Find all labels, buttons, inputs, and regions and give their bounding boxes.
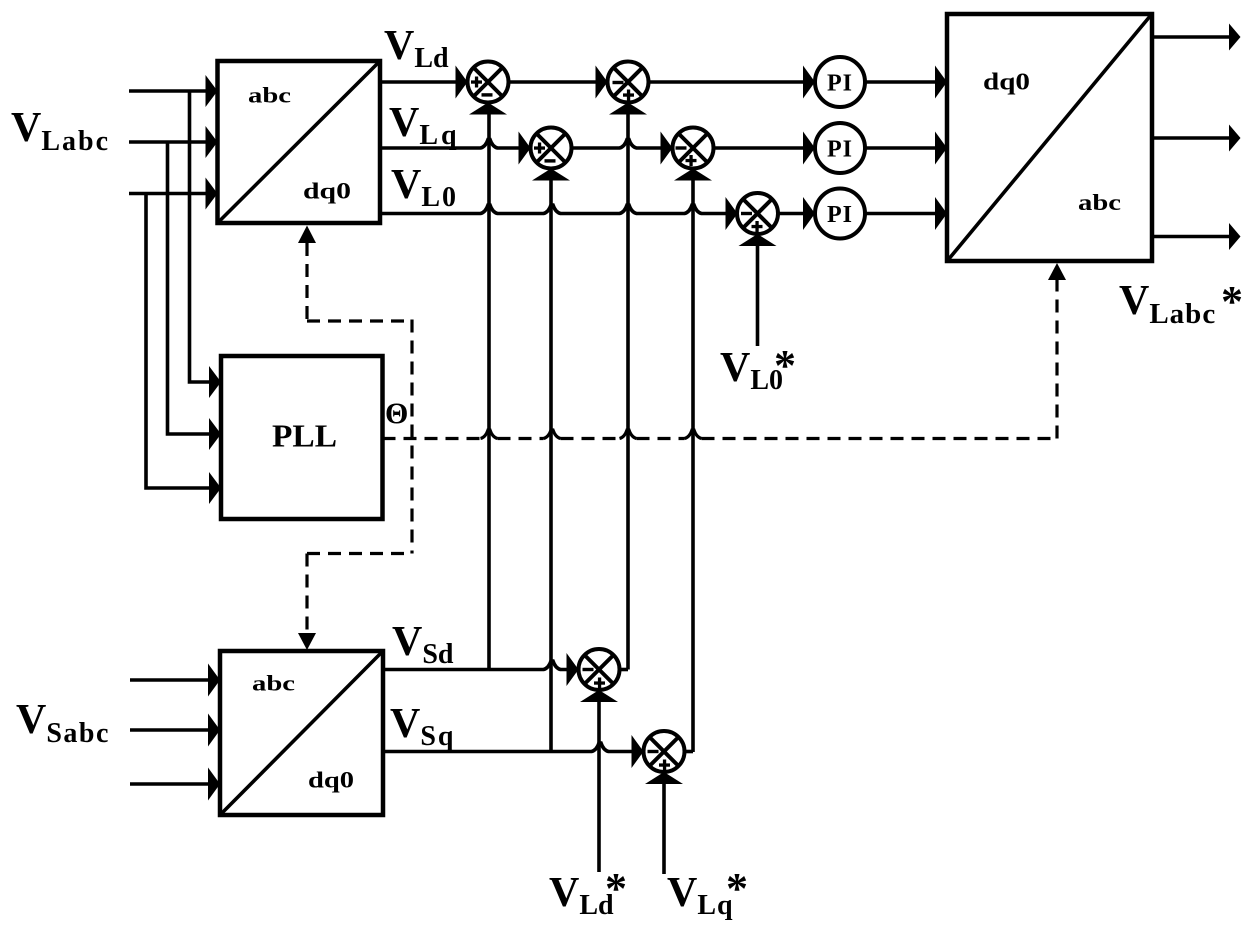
- dashed wire vertical x412: [410, 320, 413, 554]
- wire row3 B1 to sum C1 with hops: [380, 205, 727, 214]
- summing junction B1c: [531, 128, 572, 169]
- wire vertical v4 from D2 output up to B2c: [691, 174, 695, 752]
- arrowhead into sum C1: [726, 197, 738, 230]
- hop on dashed theta line over v1: [481, 430, 498, 439]
- label VL0: [391, 162, 458, 213]
- PI controller PI2: [815, 123, 865, 173]
- arrowhead B2 input b: [208, 714, 220, 747]
- arrowhead into PI3: [803, 197, 815, 230]
- arrowhead PLL input 2: [209, 418, 221, 450]
- svg-text:Θ: Θ: [385, 397, 408, 430]
- wire VLq* vertical v6: [662, 778, 666, 874]
- minus sign A1 bottom: [482, 93, 493, 96]
- wire B3 output b: [1152, 136, 1230, 140]
- label VLd*: [549, 864, 627, 921]
- label VLabc*: [1119, 277, 1243, 330]
- svg-text:dq0: dq0: [308, 768, 354, 793]
- wire feedback vertical v1 VSd up to A1: [487, 108, 491, 670]
- arrowhead input a B1: [206, 75, 218, 107]
- svg-text:*: *: [605, 864, 627, 913]
- hop on dashed theta line over v4: [685, 430, 702, 439]
- dashed wires group: [307, 243, 1057, 634]
- svg-text:PI: PI: [827, 202, 853, 228]
- block B2 diagonal: [221, 652, 382, 814]
- wire VLabc input b: [129, 140, 206, 144]
- block B3 diagonal: [948, 15, 1151, 260]
- wire B3 output c: [1152, 235, 1230, 239]
- wire row3 PI3 to B3: [865, 212, 936, 216]
- wire feedback vertical v2 VSq up to B1c: [549, 174, 553, 752]
- plus sign D1 bottom: [594, 678, 605, 689]
- summing junction D1: [579, 649, 620, 690]
- wide arrowhead up into C1 bottom: [739, 234, 777, 246]
- summing junction C1: [737, 193, 778, 234]
- wire row1 B1 to sum A1: [380, 80, 457, 84]
- arrowhead PLL input 1: [209, 366, 221, 398]
- summing junction B2c: [673, 128, 714, 169]
- wire row2 B2c to PI2: [714, 146, 805, 150]
- wide arrowhead up into B1c bottom: [532, 169, 570, 181]
- label VLabc: [11, 105, 110, 157]
- arrowhead into sum A2: [596, 66, 608, 99]
- wire VSabc input a: [130, 678, 209, 682]
- label VLq*: [667, 864, 748, 921]
- label VSabc: [16, 697, 110, 749]
- svg-text:dq0: dq0: [983, 70, 1030, 96]
- block B1 diagonal: [219, 62, 380, 222]
- dashed wire vertical x307 down to B2: [305, 554, 308, 635]
- arrowhead input c B1: [206, 178, 218, 210]
- plus sign D2 bottom: [659, 760, 670, 771]
- wire D2 output to v4: [685, 750, 694, 754]
- arrowhead input b B1: [206, 126, 218, 158]
- label VSq: [390, 701, 456, 752]
- dashed arrowhead up into B3 bottom: [1048, 263, 1066, 280]
- block B2 abc-dq0 bottom: [220, 651, 383, 815]
- wire branch a down to PLL: [190, 91, 210, 382]
- svg-text:*: *: [1221, 277, 1243, 326]
- summing junction D2: [644, 731, 685, 772]
- wide arrowhead up into D2 bottom: [645, 772, 683, 784]
- plus sign B1c left: [534, 143, 545, 154]
- hop on dashed theta line over v3: [620, 430, 637, 439]
- dashed wire PLL up segment: [305, 243, 308, 321]
- arrowhead into PI2: [803, 132, 815, 165]
- arrowhead into B3 row2: [935, 132, 947, 165]
- arrowhead into sum B2c: [661, 132, 673, 165]
- PI controller PI1: [815, 57, 865, 107]
- wire vertical v7 VL0* up to C1: [756, 240, 760, 346]
- label VL0*: [720, 341, 796, 396]
- block PLL: [221, 356, 383, 519]
- wire D1 output to v3: [620, 668, 629, 672]
- wire row3 C1 to PI3: [778, 212, 804, 216]
- wire row1 A2 to PI1: [649, 80, 805, 84]
- arrowhead into PI1: [803, 66, 815, 99]
- arrowhead into sum B1c: [519, 132, 531, 165]
- svg-text:abc: abc: [248, 83, 291, 108]
- wire branch b down to PLL: [168, 142, 210, 434]
- dashed arrowhead up into B1 bottom: [298, 226, 316, 244]
- svg-text:PI: PI: [827, 137, 853, 163]
- hop on dashed theta line over v2: [544, 430, 561, 439]
- wire branch c down to PLL: [146, 194, 210, 489]
- wide arrowhead up into D1 bottom: [580, 690, 618, 702]
- block B1 abc-dq0 top-left: [218, 61, 381, 223]
- minus sign D1 left: [583, 668, 594, 671]
- dashed arrowhead down into B2 top: [298, 633, 316, 650]
- wide arrowhead up into B2c bottom: [674, 169, 712, 181]
- wire row2 B1 to sum B1c with hop: [380, 140, 520, 149]
- svg-text:PI: PI: [827, 71, 853, 97]
- wire row1 PI1 to B3: [865, 80, 936, 84]
- wire VLabc input a: [129, 89, 206, 93]
- wire VLd* vertical v5: [597, 696, 601, 872]
- minus sign A2 left: [613, 81, 624, 84]
- label VLq: [389, 100, 460, 151]
- arrowhead output a: [1229, 24, 1241, 51]
- plus sign A2 bottom: [623, 90, 634, 101]
- wide arrowhead up into A1 bottom: [469, 103, 507, 115]
- svg-text:abc: abc: [252, 671, 295, 696]
- arrowhead into sum D2: [632, 735, 644, 768]
- plus sign A1 left: [471, 77, 482, 88]
- wire vertical v3 from D1 output up to A2: [626, 108, 630, 670]
- arrowhead into sum D1: [567, 653, 579, 686]
- wire VSabc input c: [130, 782, 209, 786]
- svg-text:*: *: [774, 341, 796, 390]
- wire B3 output a: [1152, 35, 1230, 39]
- dashed wire horizontal y553: [307, 552, 412, 555]
- arrowhead PLL input 3: [209, 472, 221, 504]
- wide arrowhead up into A2 bottom: [609, 103, 647, 115]
- arrowhead output c: [1229, 223, 1241, 250]
- wire VSq from B2 to sum D2 with hop: [383, 743, 633, 752]
- summing junction A1: [468, 62, 509, 103]
- plus sign B2c bottom: [686, 155, 697, 166]
- arrowhead into sum A1: [456, 66, 468, 99]
- minus sign B1c bottom: [545, 159, 556, 162]
- dashed wire vertical x1057 up to B3: [1055, 278, 1058, 439]
- label VSd: [392, 619, 454, 670]
- minus sign D2 left: [648, 750, 659, 753]
- wire row1 A1 to sum A2: [509, 80, 597, 84]
- label VLd: [384, 23, 449, 74]
- arrowhead into B3 row3: [935, 197, 947, 230]
- wire VSd from B2 to sum D1 with hop: [383, 661, 568, 670]
- PI controller PI3: [815, 189, 865, 239]
- summing junction A2: [608, 62, 649, 103]
- minus sign C1 left: [741, 212, 752, 215]
- svg-text:PLL: PLL: [272, 418, 337, 454]
- wire row2 PI2 to B3: [865, 146, 936, 150]
- dashed wire theta horizontal segments: [383, 437, 481, 440]
- svg-text:*: *: [726, 864, 748, 913]
- plus sign C1 bottom: [752, 221, 763, 232]
- arrowhead output b: [1229, 125, 1241, 152]
- arrowhead B2 input a: [208, 664, 220, 697]
- wire VSabc input b: [130, 728, 209, 732]
- svg-text:dq0: dq0: [303, 179, 351, 204]
- svg-text:abc: abc: [1078, 190, 1121, 216]
- block B3 dq0-abc right: [947, 14, 1152, 261]
- arrowhead into B3 row1: [935, 66, 947, 99]
- arrowhead B2 input c: [208, 768, 220, 801]
- dashed wire horizontal y321: [307, 319, 412, 322]
- minus sign B2c left: [676, 146, 687, 149]
- wire row2 B1c to sum B2c with hop: [572, 140, 662, 149]
- wire VLabc input c: [129, 192, 206, 196]
